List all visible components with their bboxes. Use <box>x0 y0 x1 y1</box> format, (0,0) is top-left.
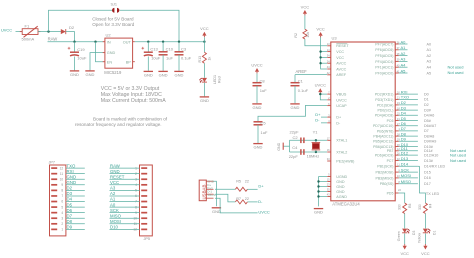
capacitor C13 <box>142 42 161 71</box>
op-amp U3 outline label <box>331 36 395 207</box>
ground below C1 <box>290 104 299 110</box>
note closed for 5V <box>92 16 135 27</box>
svg-text:1uF: 1uF <box>261 130 268 135</box>
junction RAW EN <box>94 41 96 43</box>
svg-text:A5: A5 <box>427 71 432 75</box>
svg-text:22pF: 22pF <box>290 130 300 135</box>
wire D1 to VCC <box>424 234 426 245</box>
junction RAW C19 <box>73 41 75 43</box>
svg-text:Y1: Y1 <box>313 130 319 135</box>
junction VCC pin 2 <box>319 56 321 58</box>
svg-text:D2: D2 <box>424 103 429 107</box>
svg-text:R4: R4 <box>429 204 433 208</box>
svg-text:GND: GND <box>200 98 209 103</box>
label not used A4 <box>448 64 464 69</box>
wire GND pin of U2 <box>90 53 103 71</box>
svg-text:GND: GND <box>277 142 281 150</box>
svg-text:PD1(SDA): PD1(SDA) <box>377 103 393 107</box>
label not used A5 <box>448 70 464 75</box>
svg-text:7: 7 <box>61 194 63 198</box>
svg-text:A0: A0 <box>110 202 116 207</box>
junction VCC pin 1 <box>319 50 321 52</box>
svg-text:Not used: Not used <box>450 158 466 163</box>
svg-text:GND: GND <box>67 174 77 179</box>
svg-text:D2: D2 <box>69 25 75 30</box>
resistor R4 330 <box>418 203 432 214</box>
svg-text:UVCC: UVCC <box>336 98 347 102</box>
capacitor C10 <box>159 42 174 71</box>
svg-text:2: 2 <box>61 222 63 226</box>
svg-text:PF1(ADC1): PF1(ADC1) <box>375 66 393 70</box>
svg-text:AREF: AREF <box>296 69 308 74</box>
node UVCC input label <box>1 27 22 32</box>
svg-text:PF7(ADC7): PF7(ADC7) <box>375 42 393 46</box>
svg-text:D16: D16 <box>424 176 431 180</box>
ground below C10 <box>158 71 167 77</box>
svg-text:A0: A0 <box>427 42 432 46</box>
svg-text:D5#: D5# <box>424 119 432 123</box>
svg-text:A4: A4 <box>401 63 407 68</box>
svg-text:D17: D17 <box>424 182 431 186</box>
svg-text:GND: GND <box>86 72 95 77</box>
IC right pins digital <box>395 89 445 186</box>
svg-text:D12/A10: D12/A10 <box>424 153 438 157</box>
resistor R5 22 <box>235 180 249 192</box>
svg-text:UVCC: UVCC <box>258 209 269 214</box>
svg-text:GND: GND <box>110 169 120 174</box>
svg-text:GND: GND <box>253 105 262 110</box>
svg-text:D6#/A7: D6#/A7 <box>424 124 436 128</box>
svg-text:D7: D7 <box>67 213 73 218</box>
diode D2 <box>61 25 75 34</box>
svg-text:500mA: 500mA <box>22 36 35 41</box>
svg-text:R8: R8 <box>408 204 412 208</box>
svg-text:PC7: PC7 <box>387 159 394 163</box>
svg-text:VCC: VCC <box>316 26 325 31</box>
svg-text:GND: GND <box>144 72 153 77</box>
USBAB pin stubs <box>206 181 213 198</box>
svg-text:0.1uF: 0.1uF <box>181 56 192 61</box>
svg-text:TX LED: TX LED <box>426 192 440 196</box>
svg-text:C19: C19 <box>77 47 85 52</box>
svg-text:MOSI: MOSI <box>401 173 411 178</box>
fuse F1 <box>20 23 41 41</box>
node RAW label <box>48 37 58 42</box>
svg-text:VCC: VCC <box>336 56 344 60</box>
junction C3 / SJ1 <box>178 41 180 43</box>
junction fuse output <box>47 30 49 32</box>
node D- stub at IC <box>315 118 327 123</box>
svg-text:GND: GND <box>70 72 79 77</box>
svg-text:U3: U3 <box>332 36 338 41</box>
svg-text:10k: 10k <box>306 32 310 38</box>
svg-text:PB4(ADC11): PB4(ADC11) <box>373 135 393 139</box>
svg-text:8: 8 <box>61 189 63 193</box>
svg-text:C5: C5 <box>261 120 267 125</box>
power UVCC arrow for IC <box>315 83 326 94</box>
label TX LED <box>426 192 440 196</box>
LED LED1 red <box>199 75 221 84</box>
svg-text:GND: GND <box>336 180 345 184</box>
svg-text:330: 330 <box>418 204 422 210</box>
svg-text:10uF: 10uF <box>151 56 161 61</box>
svg-text:C10: C10 <box>166 46 174 51</box>
junction gnd 3 <box>317 190 319 192</box>
svg-text:RXI: RXI <box>67 169 74 174</box>
svg-text:VBUS1: VBUS1 <box>207 193 217 197</box>
wire VCC to R13 <box>203 42 205 53</box>
resistor R7 22 <box>235 197 249 204</box>
svg-text:C3: C3 <box>181 46 187 51</box>
svg-text:PD3(TXD1): PD3(TXD1) <box>375 98 393 102</box>
svg-text:VCC: VCC <box>301 4 310 9</box>
wire UCAP to C5 <box>258 105 327 121</box>
wire RAW rail <box>48 41 104 43</box>
power VCC arrow for IC <box>316 26 325 37</box>
capacitor C19 <box>68 42 87 71</box>
resistor R8 330 <box>397 203 411 214</box>
wire PD5 pin to green chain <box>395 188 405 203</box>
svg-text:GND: GND <box>212 209 221 214</box>
svg-text:AVCC: AVCC <box>336 67 346 71</box>
svg-text:F1: F1 <box>25 23 30 28</box>
svg-text:D9: D9 <box>67 225 73 230</box>
svg-text:D4/A6: D4/A6 <box>424 114 434 118</box>
svg-text:GND: GND <box>336 185 345 189</box>
svg-text:VCC: VCC <box>110 180 119 185</box>
note VCC output <box>101 86 166 104</box>
capacitor C5 <box>254 120 268 143</box>
svg-text:1uF: 1uF <box>166 56 173 61</box>
svg-text:Green: Green <box>397 231 401 241</box>
svg-text:UVCC: UVCC <box>315 83 326 88</box>
wire R13 to LED1 <box>203 63 205 77</box>
svg-text:RAW: RAW <box>48 37 58 42</box>
svg-text:10uF: 10uF <box>77 56 87 61</box>
ground below C5 <box>253 144 262 150</box>
svg-text:PB3(MISO): PB3(MISO) <box>375 176 393 180</box>
ground below IC <box>314 209 323 215</box>
svg-text:16MHz: 16MHz <box>307 153 320 158</box>
voltage regulator U2 MIC5219 <box>103 33 135 76</box>
svg-text:RESET: RESET <box>110 174 125 179</box>
wire IC ground bus <box>319 177 328 207</box>
svg-text:RXI: RXI <box>401 89 408 94</box>
svg-text:3: 3 <box>61 216 63 220</box>
svg-text:UVCC: UVCC <box>251 62 262 67</box>
svg-text:D1: D1 <box>424 98 429 102</box>
svg-text:A5: A5 <box>401 68 407 73</box>
svg-text:VCC: VCC <box>336 50 344 54</box>
ground crystal rotated <box>277 142 283 150</box>
svg-text:XTAL1: XTAL1 <box>336 139 347 143</box>
power VCC down yellow <box>421 244 430 256</box>
svg-text:EN: EN <box>107 60 113 64</box>
svg-text:A1: A1 <box>427 48 432 52</box>
IC U3 right pin names <box>373 42 393 195</box>
svg-text:PB5(ADC12): PB5(ADC12) <box>373 140 393 144</box>
svg-text:TXO: TXO <box>401 95 409 100</box>
svg-text:Yellow: Yellow <box>418 233 422 244</box>
svg-text:A3: A3 <box>110 186 116 191</box>
wire SJ1 to VCC rail drop <box>120 10 179 42</box>
node D+ stub at IC <box>315 112 327 117</box>
svg-text:9: 9 <box>61 183 63 187</box>
wire usb VBUS to UVCC <box>215 198 270 214</box>
IC U3 left pins <box>327 42 355 199</box>
svg-text:C8: C8 <box>260 78 266 83</box>
svg-text:PD2(RXD1): PD2(RXD1) <box>375 93 393 97</box>
svg-text:GND: GND <box>159 72 168 77</box>
ground below C19 <box>70 71 79 77</box>
wire R5 to D+ label <box>247 184 264 190</box>
svg-text:10: 10 <box>60 177 64 181</box>
svg-text:D8: D8 <box>67 219 73 224</box>
svg-text:MISO: MISO <box>401 179 411 184</box>
svg-text:resonator frequency and regula: resonator frequency and regulator voltag… <box>75 122 162 127</box>
ground below C8 <box>252 104 261 110</box>
svg-text:A3: A3 <box>427 60 432 64</box>
svg-text:A2: A2 <box>110 191 116 196</box>
svg-text:GND: GND <box>254 145 263 150</box>
svg-text:PD0(SCL): PD0(SCL) <box>377 109 393 113</box>
svg-text:PD6(ADC9): PD6(ADC9) <box>375 154 393 158</box>
svg-text:D3#: D3# <box>424 108 432 112</box>
power VCC arrow for R2 <box>301 4 310 15</box>
wire D14 to RX LED chain <box>418 166 426 203</box>
svg-text:RESET: RESET <box>336 44 349 48</box>
svg-text:VCC: VCC <box>421 251 430 256</box>
note board marking <box>75 116 168 127</box>
junction VBUS <box>319 93 321 95</box>
svg-text:GND: GND <box>107 51 116 55</box>
svg-text:D13#: D13# <box>424 159 434 163</box>
svg-text:XTAL2: XTAL2 <box>336 150 347 154</box>
svg-text:RAW: RAW <box>110 163 121 168</box>
wire output rail <box>135 41 205 43</box>
svg-text:1k: 1k <box>208 57 212 61</box>
wire XTAL1 net <box>290 139 328 141</box>
svg-text:PF0(ADC0): PF0(ADC0) <box>375 71 393 75</box>
svg-text:GND: GND <box>67 180 77 185</box>
svg-text:D-: D- <box>315 118 320 123</box>
svg-text:D5: D5 <box>67 202 73 207</box>
power UVCC arrow <box>251 62 262 73</box>
USBAB pin names <box>207 179 217 196</box>
svg-text:22pF: 22pF <box>289 154 299 159</box>
junction gnd 2 <box>317 185 319 187</box>
svg-text:IN: IN <box>107 40 111 44</box>
svg-text:PB1(SCK): PB1(SCK) <box>377 165 393 169</box>
svg-text:SJ1: SJ1 <box>111 3 118 7</box>
wire usb D- to R7 <box>215 194 235 202</box>
svg-text:Max Current Output: 500mA: Max Current Output: 500mA <box>101 98 166 104</box>
svg-text:PF6(ADC6): PF6(ADC6) <box>375 48 393 52</box>
wire crystal gnd bus <box>284 140 290 152</box>
svg-text:D6: D6 <box>67 208 73 213</box>
svg-text:D13: D13 <box>401 156 409 161</box>
svg-text:C13: C13 <box>150 46 158 51</box>
svg-text:AGND: AGND <box>336 195 347 199</box>
ground below C3 <box>174 71 183 77</box>
svg-text:5: 5 <box>61 205 63 209</box>
label not used D13 <box>450 158 466 163</box>
svg-text:D8/A8: D8/A8 <box>424 134 434 138</box>
svg-text:TXO: TXO <box>67 163 76 168</box>
junction gnd 1 <box>317 180 319 182</box>
svg-text:A2: A2 <box>401 51 407 56</box>
wire LED1 to GND <box>203 83 205 97</box>
svg-text:330: 330 <box>397 204 401 210</box>
svg-text:C1: C1 <box>298 78 304 83</box>
wire VCC bus <box>321 37 327 69</box>
svg-text:A2: A2 <box>427 54 432 58</box>
svg-text:JP7: JP7 <box>49 161 56 165</box>
wire XTAL2 net <box>290 151 328 153</box>
svg-text:Closed for 5V Board: Closed for 5V Board <box>92 16 134 21</box>
solder jumper SJ1 <box>111 3 120 13</box>
svg-text:VCC: VCC <box>400 251 409 256</box>
svg-text:1uF: 1uF <box>260 88 267 93</box>
svg-text:GND: GND <box>314 210 323 215</box>
svg-text:Not used: Not used <box>450 152 466 157</box>
power VCC arrow <box>200 26 209 42</box>
svg-text:D10: D10 <box>110 225 118 230</box>
svg-text:AVCC: AVCC <box>336 62 346 66</box>
resistor R13 <box>198 52 212 63</box>
svg-text:C2: C2 <box>293 135 299 140</box>
svg-text:12: 12 <box>60 166 64 170</box>
wire usb D+ to R5 <box>215 188 235 190</box>
label not used D12 <box>450 152 466 157</box>
svg-text:D4: D4 <box>67 197 73 202</box>
svg-text:Board is marked with combinati: Board is marked with combination of <box>93 116 168 121</box>
svg-text:AREF: AREF <box>336 73 347 77</box>
wire usb GND <box>214 181 217 206</box>
svg-text:Red: Red <box>218 76 222 83</box>
junction AVCC pin <box>319 62 321 64</box>
svg-text:PD4(ADC8): PD4(ADC8) <box>375 114 393 118</box>
label Green <box>397 231 401 241</box>
svg-text:GND: GND <box>336 190 345 194</box>
junction crystal top <box>315 139 317 141</box>
svg-text:SCK: SCK <box>401 167 410 172</box>
capacitor C4 22pF <box>289 145 304 159</box>
svg-text:UVCC: UVCC <box>1 27 12 32</box>
svg-text:D14: D14 <box>401 162 409 167</box>
svg-text:PD7(ADC10): PD7(ADC10) <box>373 124 393 128</box>
svg-text:UCAP: UCAP <box>336 104 347 108</box>
svg-text:R5: R5 <box>236 180 241 184</box>
capacitor C8 <box>253 73 268 103</box>
svg-text:Not used: Not used <box>448 70 464 75</box>
svg-text:U2: U2 <box>106 33 112 38</box>
svg-text:PF4(ADC4): PF4(ADC4) <box>375 60 393 64</box>
wire fuse to junction <box>38 31 61 33</box>
svg-text:D3: D3 <box>412 231 416 235</box>
svg-text:D15: D15 <box>424 170 431 174</box>
svg-text:D+: D+ <box>336 116 341 120</box>
svg-text:VBUS: VBUS <box>336 93 347 97</box>
svg-text:A1: A1 <box>401 45 407 50</box>
svg-text:22: 22 <box>245 197 249 201</box>
ground below LED1 <box>200 97 209 103</box>
svg-text:D12: D12 <box>401 150 409 155</box>
svg-text:D1: D1 <box>433 231 437 235</box>
svg-text:PB2(MOSI): PB2(MOSI) <box>375 171 393 175</box>
svg-text:MISO: MISO <box>110 213 122 218</box>
LED D1 yellow <box>423 229 437 235</box>
svg-text:USBAB: USBAB <box>201 185 206 200</box>
wire up to SJ1 rail <box>49 10 114 31</box>
svg-text:Not used: Not used <box>448 64 464 69</box>
label not used D11 <box>450 148 466 153</box>
svg-text:BP: BP <box>126 60 132 64</box>
junction C13 <box>147 41 149 43</box>
svg-text:MIC5219: MIC5219 <box>104 70 122 75</box>
svg-text:PE6(INT6): PE6(INT6) <box>377 129 394 133</box>
capacitor C1 <box>291 75 309 104</box>
svg-text:D9#/A9: D9#/A9 <box>424 140 436 144</box>
svg-text:C4: C4 <box>292 145 298 150</box>
capacitor C2 22pF <box>290 130 304 143</box>
ground below U2 gnd pin <box>85 71 94 77</box>
svg-text:Open for 3.3V Board: Open for 3.3V Board <box>92 22 135 27</box>
svg-text:D+: D+ <box>315 112 321 117</box>
svg-text:R2: R2 <box>294 33 298 38</box>
svg-text:A4: A4 <box>427 66 432 70</box>
crystal Y1 16MHz <box>307 130 321 159</box>
svg-text:GND: GND <box>175 72 184 77</box>
LED D3 green <box>402 229 416 235</box>
svg-text:OUT: OUT <box>123 40 132 44</box>
wire R4 to LED D1 <box>424 214 426 229</box>
label Yellow <box>418 233 422 244</box>
svg-text:D+: D+ <box>258 184 264 189</box>
wire EN branch <box>96 42 104 62</box>
svg-text:D2: D2 <box>67 186 73 191</box>
ground below C13 <box>144 71 153 77</box>
wire D3 to VCC <box>404 234 406 245</box>
ground below USB <box>212 208 221 214</box>
svg-text:A1: A1 <box>110 197 116 202</box>
junction C10 <box>162 41 164 43</box>
IC right pins A0-A5 <box>395 39 431 75</box>
wire R8 to LED D3 <box>404 214 406 229</box>
svg-text:PC6: PC6 <box>387 119 394 123</box>
svg-text:PB0(SS): PB0(SS) <box>380 182 394 186</box>
wire R2 to RESET pin <box>305 39 327 46</box>
svg-text:PF5(ADC5): PF5(ADC5) <box>375 54 393 58</box>
svg-text:D7: D7 <box>424 129 429 133</box>
junction crystal bottom <box>315 151 317 153</box>
svg-text:D14/RX LED: D14/RX LED <box>424 165 445 169</box>
svg-text:D-: D- <box>258 199 263 204</box>
node AREF wire <box>295 69 327 74</box>
svg-text:0.1uF: 0.1uF <box>298 88 309 93</box>
svg-text:A3: A3 <box>401 57 407 62</box>
resistor R2 <box>294 15 310 39</box>
svg-text:JP5: JP5 <box>144 237 151 241</box>
junction gnd 4 <box>317 195 319 197</box>
svg-text:22: 22 <box>245 180 249 184</box>
svg-text:A0: A0 <box>401 39 407 44</box>
header JP5 <box>110 163 153 241</box>
junction VCC R13 <box>203 41 205 43</box>
header JP7 <box>49 161 85 236</box>
capacitor C3 <box>175 42 192 71</box>
svg-text:GND: GND <box>291 105 300 110</box>
